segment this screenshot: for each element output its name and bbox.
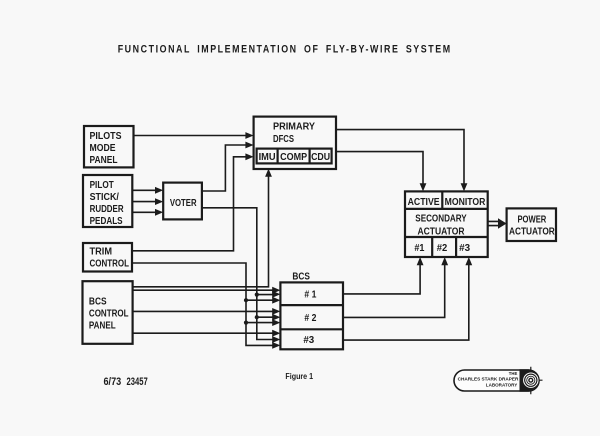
svg-text:FUNCTIONAL IMPLEMENTATION OF F: FUNCTIONAL IMPLEMENTATION OF FLY-BY-WIRE… (118, 44, 452, 56)
svg-text:BCS: BCS (89, 297, 107, 308)
svg-text:PILOT: PILOT (90, 180, 115, 191)
svg-text:VOTER: VOTER (170, 198, 197, 209)
svg-text:Figure 1: Figure 1 (285, 371, 313, 381)
svg-text:RUDDER: RUDDER (90, 204, 124, 215)
svg-text:MODE: MODE (90, 143, 116, 154)
svg-text:ACTUATOR: ACTUATOR (509, 226, 555, 237)
svg-text:ACTIVE: ACTIVE (408, 197, 440, 208)
svg-text:CONTROL: CONTROL (90, 259, 130, 270)
svg-text:#1: #1 (414, 243, 425, 254)
svg-text:STICK/: STICK/ (90, 192, 119, 203)
svg-text:PANEL: PANEL (90, 155, 118, 166)
svg-text:MONITOR: MONITOR (445, 197, 486, 208)
svg-text:SECONDARY: SECONDARY (415, 214, 467, 225)
svg-text:LABORATORY: LABORATORY (486, 383, 518, 388)
svg-text:PEDALS: PEDALS (90, 216, 123, 227)
svg-text:CONTROL: CONTROL (89, 309, 129, 320)
svg-text:DFCS: DFCS (273, 134, 294, 145)
svg-text:THE: THE (509, 371, 518, 376)
svg-text:POWER: POWER (517, 215, 546, 226)
svg-text:6/73: 6/73 (104, 376, 122, 388)
svg-text:PANEL: PANEL (89, 321, 116, 332)
svg-text:COMP: COMP (280, 152, 307, 163)
svg-text:CDU: CDU (311, 152, 330, 163)
svg-text:#3: #3 (303, 335, 314, 346)
svg-text:BCS: BCS (292, 272, 310, 283)
svg-text:23457: 23457 (127, 376, 148, 388)
svg-text:TRIM: TRIM (90, 247, 113, 258)
svg-text:#3: #3 (459, 243, 471, 254)
svg-text:IMU: IMU (259, 152, 276, 163)
svg-text:PRIMARY: PRIMARY (273, 122, 315, 133)
svg-text:CHARLES STARK DRAPER: CHARLES STARK DRAPER (458, 377, 519, 382)
svg-text:PILOTS: PILOTS (90, 131, 122, 142)
svg-text:ACTUATOR: ACTUATOR (418, 226, 466, 237)
svg-text:# 1: # 1 (304, 290, 316, 301)
svg-text:# 2: # 2 (304, 313, 316, 324)
svg-text:#2: #2 (437, 243, 448, 254)
